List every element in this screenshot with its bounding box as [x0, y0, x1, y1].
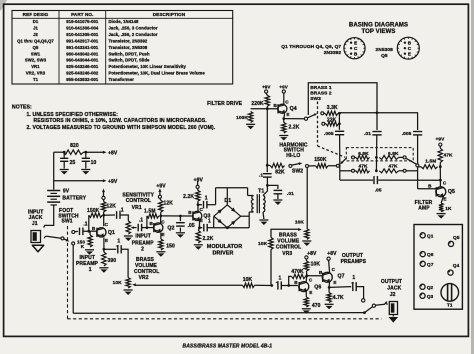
wire Q7 emitter	[328, 282, 331, 288]
svg-text:960-043042-001: 960-043042-001	[66, 51, 99, 56]
wire top link left	[215, 188, 217, 205]
SW2 contact circle	[306, 165, 309, 168]
terminal +9V Q4b	[282, 90, 285, 93]
resistor 12K Q1	[103, 200, 105, 202]
svg-text:Q5: Q5	[381, 53, 388, 59]
svg-text:OUTPUT: OUTPUT	[342, 253, 363, 259]
capacitor 1 Q3 collector	[198, 204, 202, 206]
svg-text:NOTES:: NOTES:	[12, 104, 32, 110]
node dot 820 left	[63, 151, 66, 154]
resistor 150K to ground	[89, 231, 91, 235]
capacitor .05 filter	[373, 176, 375, 184]
svg-text:K: K	[81, 244, 85, 249]
SW2 pole circle	[289, 164, 292, 167]
svg-text:E: E	[408, 52, 411, 57]
wire cap1 to VR2	[121, 249, 128, 277]
svg-text:10K: 10K	[311, 261, 321, 267]
svg-text:VR2, VR3: VR2, VR3	[26, 71, 46, 76]
svg-text:+9V: +9V	[436, 137, 446, 143]
input jack J1	[31, 231, 41, 243]
svg-text:Transistor, 2N3392: Transistor, 2N3392	[109, 39, 148, 44]
wire Q3 collector	[197, 205, 199, 212]
wire filter bottom rail	[340, 179, 373, 181]
filter left arm	[341, 158, 346, 163]
svg-text:C: C	[354, 46, 358, 51]
ground cap10	[81, 169, 90, 171]
capacitor .01	[376, 113, 378, 130]
resistor 6.8K b	[379, 155, 398, 159]
svg-text:SW1: SW1	[31, 51, 41, 56]
wire modulator top link	[216, 187, 248, 189]
arrow +9V	[103, 179, 107, 182]
output jack J2	[389, 302, 397, 315]
node Q2 base	[146, 226, 149, 229]
basing diagram 2N5308 (pins B C E)	[397, 37, 419, 59]
transistor Q5	[436, 187, 446, 197]
ground T1	[259, 219, 268, 221]
capacitor .05 shunt	[179, 216, 181, 221]
svg-text:82K: 82K	[275, 169, 285, 175]
svg-text:C: C	[161, 219, 165, 224]
wire bypass bus	[73, 312, 364, 315]
resistor 470K	[306, 275, 307, 278]
svg-text:T1: T1	[447, 303, 453, 309]
svg-text:Jack, .250, 3 Conductor: Jack, .250, 3 Conductor	[109, 26, 158, 31]
svg-text:TOP VIEWS: TOP VIEWS	[361, 29, 395, 35]
svg-text:Diode, 1N4148: Diode, 1N4148	[109, 19, 139, 24]
resistor 470	[304, 297, 308, 307]
wire ladder center	[375, 156, 377, 171]
wire Q2C to Q3 base	[161, 215, 193, 217]
wire to Q2 base	[147, 227, 154, 229]
ground VR3	[302, 240, 311, 242]
svg-text:1: 1	[352, 275, 355, 281]
svg-text:.1: .1	[259, 172, 263, 178]
pcb Q1	[420, 233, 425, 238]
transistor Q3	[193, 211, 202, 220]
capacitor .1 input	[79, 228, 81, 236]
svg-text:Switch, DPDT, Push: Switch, DPDT, Push	[109, 51, 150, 56]
svg-text:OUTPUT: OUTPUT	[381, 279, 402, 285]
resistor 1.5M filter	[417, 166, 421, 168]
svg-text:Q1 thru Q4,Q6,Q7: Q1 thru Q4,Q6,Q7	[17, 39, 54, 44]
svg-text:AMP: AMP	[418, 206, 430, 212]
svg-text:+9V: +9V	[108, 179, 118, 185]
node Q1 base	[87, 230, 90, 233]
svg-text:Q6: Q6	[314, 284, 321, 290]
dashed link SW3	[317, 102, 319, 147]
SW3 contact 22K	[322, 122, 325, 125]
node bus SW1 output	[363, 311, 366, 314]
svg-text:Q4: Q4	[453, 263, 460, 269]
wire D1 top	[226, 188, 228, 205]
filter right contact	[416, 164, 419, 167]
svg-text:Q7: Q7	[337, 273, 344, 279]
SW1 arm arrow	[64, 239, 68, 241]
svg-text:E: E	[309, 290, 312, 295]
svg-text:T1: T1	[258, 188, 264, 194]
svg-text:PREAMP: PREAMP	[132, 240, 155, 246]
svg-text:.1: .1	[119, 207, 123, 213]
svg-text:RESISTORS IN OHMS, ± 10%, 1/2W: RESISTORS IN OHMS, ± 10%, 1/2W. CAPACITO…	[34, 118, 208, 124]
pcb Q7	[420, 261, 425, 266]
svg-text:Q7: Q7	[427, 262, 434, 268]
svg-text:C: C	[443, 181, 447, 186]
wire Q4 collector	[283, 93, 285, 104]
wire 47K left stub	[340, 170, 352, 172]
wire D1 bottom line	[214, 227, 250, 229]
svg-text:SW3: SW3	[310, 96, 321, 102]
battery 9V	[47, 190, 60, 192]
SW3 pole circle	[304, 117, 307, 120]
wire 3.3K-22K junction	[338, 113, 340, 130]
terminal +9V Q3	[196, 185, 199, 188]
potentiometer VR2	[126, 278, 130, 289]
ground cap25	[60, 169, 69, 171]
svg-text:470K: 470K	[291, 269, 304, 275]
svg-text:SW2, SW3: SW2, SW3	[25, 58, 47, 63]
svg-text:PART NO.: PART NO.	[71, 12, 93, 17]
SW1 contact upper	[72, 231, 75, 234]
wire Q5 collector	[439, 180, 441, 187]
svg-text:820: 820	[70, 143, 79, 149]
resistor 100K	[251, 108, 268, 110]
svg-text:BASING DIAGRAMS: BASING DIAGRAMS	[349, 22, 408, 28]
resistor 150 Q2	[159, 239, 163, 250]
ground 4.7K	[325, 303, 334, 305]
dashed enclosure line	[67, 226, 69, 319]
node Q3 collector	[197, 203, 200, 206]
terminal +9V Q4a	[265, 90, 268, 93]
ground 100K	[246, 123, 255, 125]
wire Q4 emitter	[283, 114, 286, 119]
resistor 2.2K Q3 collector	[197, 189, 199, 191]
resistor 820	[63, 150, 84, 154]
wire VR3 tap down	[270, 250, 272, 286]
svg-text:BRASS: BRASS	[279, 232, 298, 238]
svg-text:2.2K: 2.2K	[289, 125, 300, 131]
node Q3 emitter	[198, 226, 201, 229]
SW2 arm	[292, 164, 300, 166]
6.8K left contact	[352, 156, 355, 159]
ground 470	[302, 308, 311, 310]
capacitor 1 output	[329, 286, 351, 289]
capacitor .1 Q1 out	[104, 214, 115, 216]
SW3 contact 3.3K	[321, 112, 324, 115]
svg-text:B: B	[92, 226, 96, 231]
capacitor 1 mix	[277, 281, 279, 289]
svg-text:+9V: +9V	[279, 84, 287, 89]
ground VR1	[124, 235, 133, 237]
switch SW1 pole arm	[44, 236, 47, 238]
dashed box filter	[346, 148, 413, 161]
pcb T1	[441, 284, 459, 302]
diode ring D1 outline	[214, 205, 241, 228]
svg-text:B: B	[273, 103, 277, 108]
svg-text:Transformer: Transformer	[109, 77, 135, 82]
svg-text:DESCRIPTION: DESCRIPTION	[153, 12, 186, 17]
ground .01 T1	[273, 199, 282, 201]
wire +9V rail	[54, 180, 103, 182]
terminal +8V Q6	[305, 256, 308, 259]
transistor Q2	[154, 223, 163, 232]
filter right arm	[406, 158, 416, 164]
wire Q6 emitter	[305, 292, 307, 298]
resistor 220K	[266, 93, 267, 95]
svg-text:919-041075-001: 919-041075-001	[66, 19, 99, 24]
svg-text:D1: D1	[33, 19, 39, 24]
svg-text:.005: .005	[402, 131, 412, 137]
ground 1K	[437, 213, 446, 215]
svg-text:Potentiometer, 10K, Dual Linea: Potentiometer, 10K, Dual Linear Brass Vo…	[109, 71, 206, 76]
resistor 3.3K	[324, 112, 325, 114]
wire SW1 upper to cap	[75, 230, 78, 232]
svg-text:+8V: +8V	[307, 251, 317, 257]
SW1 output contact upper	[362, 299, 365, 302]
basing diagram 2N3392 (pins E C B)	[344, 38, 365, 59]
wire cap to VR1	[120, 215, 128, 221]
filter left contact	[336, 164, 339, 167]
svg-text:C: C	[332, 267, 336, 272]
pcb Q6	[420, 252, 425, 257]
svg-text:9V: 9V	[63, 189, 70, 195]
svg-text:22K: 22K	[327, 117, 337, 123]
svg-text:C: C	[309, 277, 313, 282]
resistor 10K VR3 tap	[269, 238, 273, 250]
wire Q7 collector	[329, 260, 330, 273]
svg-text:C: C	[285, 99, 289, 104]
wire Q5 emitter	[441, 196, 443, 203]
svg-text:1: 1	[89, 267, 92, 273]
transistor Q7	[322, 272, 332, 282]
transformer T1 primary coil	[252, 196, 254, 200]
node Q4 emitter	[282, 117, 285, 120]
svg-text:C: C	[105, 222, 109, 227]
svg-text:J2: J2	[33, 32, 38, 37]
svg-text:SW1: SW1	[62, 218, 73, 224]
resistor 47K Q5	[439, 146, 441, 148]
svg-text:CONTROL: CONTROL	[134, 269, 159, 275]
node Q5 collector	[439, 179, 442, 182]
node 1.5M out	[439, 165, 442, 168]
wire Q2 collector	[160, 216, 162, 223]
wire D1 right corner	[241, 215, 250, 217]
svg-text:DRIVER: DRIVER	[213, 251, 234, 257]
parts table column line 1	[58, 11, 60, 85]
ground arrow J1	[32, 245, 43, 252]
resistor 12K Q2	[159, 198, 162, 200]
ground 390	[99, 267, 108, 269]
svg-text:910-041306-004: 910-041306-004	[66, 26, 99, 31]
wire D1 left corner	[213, 216, 215, 228]
svg-text:1: 1	[205, 196, 208, 202]
svg-text:4.7K: 4.7K	[333, 295, 344, 301]
parts table header line	[12, 17, 233, 19]
node Q7 emitter	[328, 286, 331, 289]
resistor 390	[103, 249, 105, 252]
svg-text:10: 10	[91, 160, 97, 166]
wire Q6C to Q7 base	[307, 275, 323, 277]
node 22K out	[338, 122, 341, 125]
svg-text:100K: 100K	[236, 115, 248, 121]
svg-text:150K: 150K	[87, 208, 100, 214]
svg-text:47K: 47K	[358, 164, 368, 170]
transistor Q6	[299, 282, 309, 292]
svg-text:Switch, DPDT, Slide: Switch, DPDT, Slide	[109, 58, 151, 63]
svg-text:+9V: +9V	[262, 84, 270, 89]
svg-text:HI-LO: HI-LO	[286, 153, 300, 159]
transformer T1 core	[256, 194, 258, 213]
SW1 output pole circle	[372, 304, 375, 307]
SW1 contact lower	[72, 242, 75, 245]
terminal +9V Q5	[439, 143, 442, 146]
ground 150 Q2	[156, 251, 165, 253]
wire Q4 base	[267, 108, 278, 110]
resistor 150K feedback	[89, 213, 103, 217]
svg-text:B: B	[408, 41, 412, 46]
ground VR2	[124, 289, 133, 291]
wire T1 secondary top	[263, 185, 267, 195]
svg-text:Q4: Q4	[290, 106, 297, 112]
node 470K base	[287, 284, 290, 287]
svg-text:E: E	[443, 196, 446, 201]
wire mix node	[255, 284, 272, 286]
6.8K right contact	[403, 156, 406, 159]
capacitor 10	[85, 152, 87, 158]
svg-text:Q2: Q2	[167, 226, 174, 232]
svg-text:2: 2	[141, 247, 144, 253]
pcb layout box	[414, 225, 462, 310]
capacitor .005 right	[417, 113, 419, 130]
resistor 22K	[325, 123, 326, 125]
svg-text:BATTERY: BATTERY	[62, 196, 86, 202]
svg-text:SW2: SW2	[292, 168, 303, 174]
svg-text:B: B	[188, 210, 192, 215]
wire base to Q1	[89, 230, 97, 232]
svg-text:6.8K: 6.8K	[358, 151, 369, 157]
svg-text:1: 1	[117, 239, 120, 245]
svg-text:2.2K: 2.2K	[203, 236, 214, 242]
wire VR3 wiper	[271, 229, 299, 237]
svg-text:Q2: Q2	[427, 285, 434, 291]
svg-text:Q5: Q5	[453, 235, 460, 241]
node Q4 base	[266, 107, 269, 110]
svg-text:JACK: JACK	[29, 215, 43, 221]
svg-text:FILTER DRIVE: FILTER DRIVE	[207, 101, 243, 107]
svg-text:CONTROL: CONTROL	[126, 198, 151, 204]
wire T1 secondary bottom	[262, 212, 265, 219]
svg-text:6.8K: 6.8K	[388, 151, 399, 157]
terminal +9V Q2	[158, 195, 161, 198]
pcb Q3	[420, 293, 425, 298]
svg-text:E: E	[286, 112, 289, 117]
parts table column line 2	[105, 11, 107, 85]
wire Q4E to SW3	[284, 118, 305, 120]
potentiometer VR3	[305, 229, 309, 240]
svg-text:JACK: JACK	[387, 285, 401, 291]
svg-text:Q6: Q6	[427, 252, 434, 258]
svg-text:220K: 220K	[251, 101, 264, 107]
svg-text:.1: .1	[139, 218, 143, 224]
wire T1 primary bottom	[248, 212, 250, 228]
svg-text:VOLUME: VOLUME	[277, 238, 300, 244]
svg-text:J2: J2	[390, 292, 396, 298]
svg-text:PREAMP: PREAMP	[76, 261, 99, 267]
svg-text:10K: 10K	[258, 241, 268, 247]
svg-text:1. UNLESS SPECIFIED OTHERWISE: 1. UNLESS SPECIFIED OTHERWISE:	[27, 112, 119, 118]
pcb Q2	[420, 284, 425, 289]
svg-text:.05: .05	[188, 223, 195, 229]
capacitor .005 left	[338, 129, 340, 131]
svg-text:3.3K: 3.3K	[327, 105, 338, 111]
svg-text:VR3: VR3	[282, 251, 292, 257]
ground 2.2K Q4	[279, 135, 288, 137]
node Q2 collector	[159, 215, 162, 218]
ground .05	[176, 232, 185, 234]
svg-text:BRASS 2: BRASS 2	[310, 91, 332, 97]
svg-text:J1: J1	[32, 221, 38, 227]
svg-text:VR1: VR1	[31, 64, 40, 69]
svg-text:2.2K: 2.2K	[183, 194, 194, 200]
wire BRASS box	[308, 83, 377, 115]
svg-text:150K: 150K	[314, 157, 327, 163]
wire Q5 base	[418, 188, 437, 190]
diode D1 edge marks	[218, 209, 223, 214]
svg-text:150: 150	[166, 243, 175, 249]
resistor 10K mix	[243, 283, 255, 287]
SW1 output arm	[365, 307, 373, 313]
svg-text:1.5M: 1.5M	[144, 209, 156, 215]
capacitor 1 Q3 emitter	[203, 224, 205, 232]
svg-text:Q5: Q5	[33, 45, 39, 50]
node 3.3K out	[338, 112, 341, 115]
resistor 6.8K a	[355, 156, 356, 158]
resistor 2.2K Q3 emitter	[198, 228, 199, 231]
svg-text:991-042917-001: 991-042917-001	[66, 39, 99, 44]
svg-text:C: C	[408, 46, 412, 51]
ground 2.2K Q3e	[194, 244, 203, 246]
node T1 top	[266, 184, 269, 187]
svg-text:955-043832-001: 955-043832-001	[66, 77, 99, 82]
svg-text:Q3: Q3	[427, 294, 434, 300]
svg-text:Jack, .250, 2 Conductor: Jack, .250, 2 Conductor	[109, 32, 158, 37]
wire to J2	[376, 302, 388, 305]
svg-text:B: B	[294, 280, 298, 285]
capacitor 1 Q1 emitter	[104, 248, 116, 250]
svg-text:390: 390	[107, 258, 116, 264]
wire SW2 to VR3	[306, 168, 308, 229]
svg-text:+8V: +8V	[327, 251, 337, 257]
47K right contact	[403, 169, 406, 172]
svg-text:47K: 47K	[443, 153, 453, 159]
transformer T1 secondary coil	[263, 196, 265, 200]
svg-text:E: E	[354, 41, 357, 46]
svg-text:47K: 47K	[388, 164, 398, 170]
svg-text:Transistor, 2N5308: Transistor, 2N5308	[109, 45, 148, 50]
resistor 10K Q6	[305, 259, 307, 261]
svg-text:+9V: +9V	[194, 177, 204, 183]
terminal +9V Q1	[102, 196, 105, 199]
svg-text:B: B	[319, 270, 323, 275]
resistor 1.5M feedback	[146, 216, 148, 228]
svg-text:Potentiometer, 10K Linear Sens: Potentiometer, 10K Linear Sensitivity	[109, 64, 187, 69]
svg-text:B: B	[354, 52, 358, 57]
SW1 pole circle	[61, 237, 64, 240]
svg-text:PREAMPS: PREAMPS	[341, 259, 367, 265]
node Q1 emitter	[103, 248, 106, 251]
node harmonic	[266, 164, 269, 167]
node dot 820 right	[84, 151, 87, 154]
